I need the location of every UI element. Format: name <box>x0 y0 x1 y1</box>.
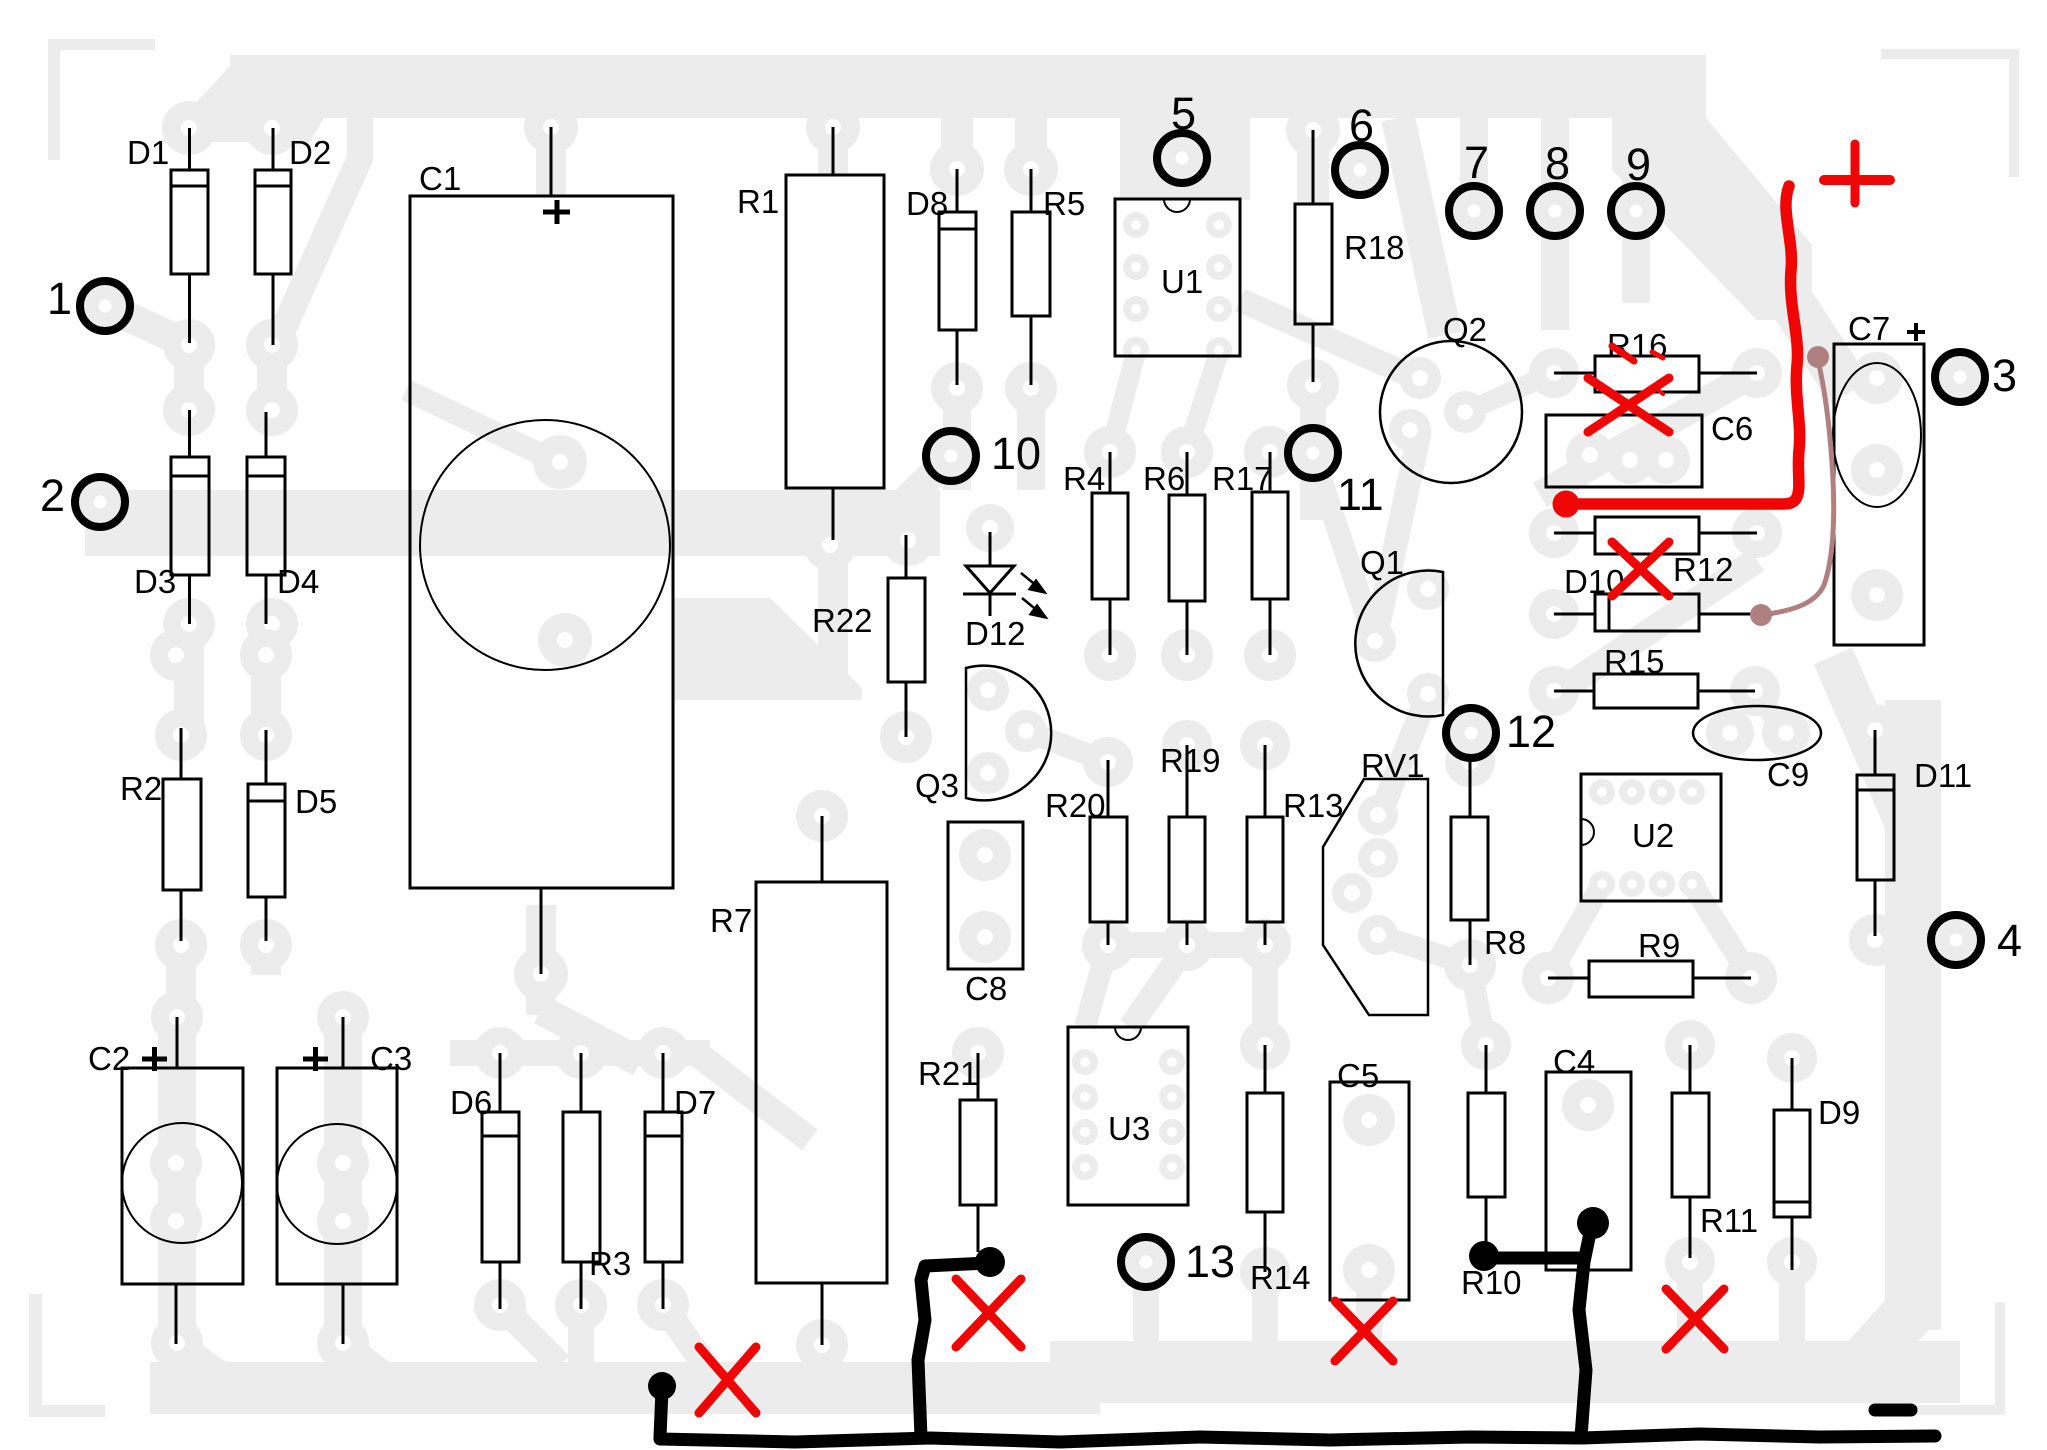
svg-text:7: 7 <box>1464 137 1489 188</box>
resistor R19 <box>1186 745 1189 817</box>
copper stub D8 <box>941 118 973 170</box>
trace D4 bottom <box>251 610 281 750</box>
capacitor C3 <box>342 1017 345 1068</box>
trace R15-C9 <box>1755 691 1786 733</box>
resistor R16 <box>1554 372 1595 375</box>
svg-text:D4: D4 <box>277 563 319 600</box>
trace row-R7 <box>700 1056 810 1140</box>
svg-text:R1: R1 <box>737 183 779 220</box>
trace Q1-RV1 <box>1380 694 1428 815</box>
corner mark bottom-right <box>1995 1302 2005 1415</box>
red tick on R16 <box>1612 346 1663 394</box>
red wire junction dot <box>1553 491 1580 518</box>
pad 3 <box>1931 348 1989 406</box>
trace R2 bottom <box>166 925 196 1035</box>
svg-text:D1: D1 <box>127 134 169 171</box>
red X below R11 <box>1666 1289 1724 1349</box>
pad 6 <box>1331 141 1389 199</box>
trace C1 bottom <box>526 905 556 1015</box>
right copper band <box>1885 700 1941 1330</box>
op-amp U3 <box>1068 1027 1188 1205</box>
trace D2-D4 <box>257 330 287 422</box>
black wire stub at dot <box>660 1390 662 1437</box>
svg-text:R18: R18 <box>1344 229 1405 266</box>
diode D7 <box>662 1053 665 1112</box>
resistor R7 <box>821 816 824 882</box>
trace R14 stub <box>1252 1272 1278 1347</box>
trace D5 bottom <box>251 925 281 975</box>
svg-text:D11: D11 <box>1914 757 1972 794</box>
trace pad12-R8 <box>1470 733 1471 762</box>
resistor R1 <box>832 127 835 175</box>
red X bottom-left <box>699 1347 756 1413</box>
black wire C4 down <box>1579 1228 1591 1437</box>
svg-text:U2: U2 <box>1632 817 1674 854</box>
trace Q3-R20 <box>1026 731 1108 762</box>
pad 10 <box>922 427 980 485</box>
svg-text:C7: C7 <box>1848 310 1890 347</box>
diode D5 <box>265 730 268 784</box>
resistor R4 <box>1109 452 1112 493</box>
black dot R21 <box>975 1247 1005 1277</box>
svg-text:C3: C3 <box>370 1040 412 1077</box>
trace U2-R9 left <box>1548 884 1602 978</box>
svg-text:C1: C1 <box>419 160 461 197</box>
svg-text:R14: R14 <box>1250 1259 1311 1296</box>
svg-text:R3: R3 <box>589 1245 631 1282</box>
trace Q2-R16 <box>1465 373 1554 412</box>
corner mark top-right <box>1881 49 2019 59</box>
svg-text:6: 6 <box>1349 100 1374 151</box>
copper stub R1 lead <box>818 80 848 175</box>
pad 11 <box>1284 424 1342 482</box>
diode D10 <box>1554 613 1595 616</box>
capacitor C9 <box>1693 706 1821 760</box>
diode D3 <box>188 410 191 457</box>
trace R7 bottom stub <box>809 1345 835 1370</box>
svg-text:D5: D5 <box>295 783 337 820</box>
trace D8 bottom stub <box>943 388 971 490</box>
resistor R12 <box>1554 532 1595 535</box>
pad 5 <box>1153 129 1211 187</box>
resistor R9 <box>1548 977 1589 980</box>
svg-text:3: 3 <box>1992 350 2017 401</box>
led D12 arrowheads <box>1030 581 1044 592</box>
pad 13 <box>1117 1233 1175 1291</box>
svg-text:R10: R10 <box>1461 1264 1522 1301</box>
resistor R3 <box>580 1053 583 1112</box>
svg-text:Q3: Q3 <box>915 767 959 804</box>
right copper band chamfer <box>1830 1300 1941 1377</box>
diode D8 <box>956 169 959 212</box>
copper stub R1 bottom <box>818 556 848 696</box>
resistor R6 <box>1186 452 1189 495</box>
transistor Q1 <box>1355 571 1443 717</box>
svg-text:R4: R4 <box>1063 460 1105 497</box>
led D12 <box>989 532 992 566</box>
trace behind C6 <box>1540 370 1760 495</box>
svg-text:R21: R21 <box>918 1055 979 1092</box>
resistor R18 <box>1312 130 1315 204</box>
svg-text:D8: D8 <box>906 185 948 222</box>
op-amp U1 <box>1115 199 1240 356</box>
svg-text:R20: R20 <box>1045 787 1106 824</box>
svg-text:8: 8 <box>1545 138 1570 189</box>
trace D1-D3 <box>174 330 204 422</box>
capacitor C5 <box>1330 1082 1409 1300</box>
pad 2 <box>71 473 129 531</box>
black ground wire bottom <box>660 1434 1935 1442</box>
bottom copper band right <box>1050 1341 1960 1403</box>
trace pad1-D1 <box>105 306 189 345</box>
trace D7 bottom <box>663 1305 705 1365</box>
svg-text:R7: R7 <box>710 902 752 939</box>
svg-text:D9: D9 <box>1818 1094 1860 1131</box>
svg-text:R12: R12 <box>1673 551 1734 588</box>
pad 8 <box>1526 182 1584 240</box>
copper stub pad9 <box>1622 118 1650 303</box>
trace R4 top diag <box>1110 352 1136 452</box>
svg-text:13: 13 <box>1185 1236 1235 1287</box>
black wire from R21 <box>918 1263 988 1437</box>
svg-text:C8: C8 <box>965 970 1007 1007</box>
trace behind R15 <box>1546 560 1757 700</box>
resistor R15 <box>1554 690 1594 693</box>
svg-text:C4: C4 <box>1553 1043 1595 1080</box>
brown wire <box>1762 360 1834 615</box>
svg-text:5: 5 <box>1171 88 1196 139</box>
trace pad11-Q1 <box>1313 455 1375 641</box>
trace R19-U3 <box>1130 945 1187 1027</box>
copper stub C1 lead <box>536 80 566 196</box>
pad 1 <box>76 277 134 335</box>
trace behind Q2 <box>1375 430 1420 641</box>
red X over R16 <box>1588 378 1669 432</box>
svg-text:D7: D7 <box>674 1084 716 1121</box>
svg-text:11: 11 <box>1337 469 1384 520</box>
corner mark bottom-left <box>29 1294 42 1417</box>
diode D11 <box>1874 730 1877 775</box>
copper blob C1 right <box>674 598 862 700</box>
svg-text:9: 9 <box>1626 139 1651 190</box>
svg-text:R19: R19 <box>1160 742 1221 779</box>
svg-text:1: 1 <box>47 273 72 324</box>
resistor R14 <box>1264 1045 1267 1093</box>
trace R8-R10 <box>1470 965 1486 1045</box>
black dot R10 <box>1469 1241 1499 1271</box>
trace C3 to band <box>343 1345 400 1390</box>
svg-text:C6: C6 <box>1711 410 1753 447</box>
trimmer RV1 <box>1323 779 1428 1015</box>
trace RV1-R8 <box>1378 935 1470 965</box>
trace R13-R14 <box>1252 945 1278 1045</box>
capacitor C8 <box>948 822 1023 969</box>
trace D6 bottom <box>500 1305 560 1365</box>
trace R11 stub <box>1677 1262 1703 1347</box>
trace R5 bottom stub <box>1017 388 1045 490</box>
svg-text:U1: U1 <box>1161 263 1203 300</box>
trace U1-Q2 <box>1240 300 1420 380</box>
trace TR to C7 <box>1790 300 1850 392</box>
trace R20-U3 <box>1085 945 1108 1027</box>
transistor Q3 <box>966 666 1051 801</box>
svg-text:RV1: RV1 <box>1361 747 1425 784</box>
svg-text:R15: R15 <box>1604 643 1665 680</box>
diode D1 <box>188 128 191 170</box>
trace U2-R9 right <box>1692 884 1751 978</box>
svg-text:U3: U3 <box>1108 1110 1150 1147</box>
transistor Q2 <box>1380 341 1522 483</box>
capacitor C7 <box>1834 344 1924 645</box>
red X below R21 <box>956 1279 1021 1347</box>
svg-text:R6: R6 <box>1143 460 1185 497</box>
diode D9 <box>1791 1058 1794 1110</box>
black dot C4 <box>1577 1207 1609 1239</box>
black wire from R10 to C4 <box>1487 1252 1581 1265</box>
svg-text:R13: R13 <box>1283 787 1344 824</box>
trace R19 row <box>1108 932 1268 958</box>
capacitor C6 <box>1546 415 1702 487</box>
resistor R10 <box>1485 1045 1488 1093</box>
pad 7 <box>1445 182 1503 240</box>
copper trace inside C1 <box>406 390 557 462</box>
trace D6 row <box>450 1040 710 1066</box>
resistor R8 <box>1469 762 1472 817</box>
svg-text:R22: R22 <box>812 602 873 639</box>
svg-text:4: 4 <box>1997 915 2022 966</box>
diode D6 <box>499 1053 502 1112</box>
resistor R21 <box>977 1053 980 1100</box>
svg-text:Q2: Q2 <box>1443 311 1487 348</box>
copper blob top-left leg <box>160 55 360 142</box>
svg-text:R17: R17 <box>1212 460 1273 497</box>
svg-text:R11: R11 <box>1700 1202 1758 1239</box>
capacitor C4 <box>1546 1072 1631 1270</box>
copper blob top-right diagonal <box>1612 118 1812 320</box>
red plus symbol <box>1824 144 1890 203</box>
svg-text:D2: D2 <box>289 134 331 171</box>
bottom copper band left <box>150 1362 1100 1414</box>
trace C5 stub <box>1356 1270 1382 1345</box>
svg-text:Q1: Q1 <box>1360 544 1404 581</box>
trace pad13 stub <box>1133 1262 1159 1347</box>
diode D4 <box>265 412 268 457</box>
op-amp U2 <box>1581 774 1721 901</box>
svg-text:12: 12 <box>1506 706 1556 757</box>
brown dot top <box>1807 346 1829 368</box>
svg-text:R5: R5 <box>1043 185 1085 222</box>
brown dot bottom <box>1750 604 1772 626</box>
red X over R12 <box>1612 542 1669 596</box>
copper trace D2-vertical <box>282 118 360 332</box>
copper trace top band <box>230 55 1706 118</box>
svg-text:C2: C2 <box>88 1040 130 1077</box>
trace D9 stub <box>1779 1262 1805 1347</box>
trace D3 bottom <box>174 610 204 750</box>
copper pads (donuts) <box>150 100 1903 1371</box>
resistor R20 <box>1107 760 1110 817</box>
red wire + supply <box>1570 186 1800 504</box>
copper stub R18 <box>1297 118 1329 205</box>
diode D2 <box>272 128 275 170</box>
trace C1-D6 diag <box>541 1010 640 1062</box>
trace C2 spine <box>158 1030 196 1350</box>
svg-text:2: 2 <box>40 470 65 521</box>
pad 9 <box>1607 182 1665 240</box>
resistor R2 <box>180 728 183 779</box>
red X below C5 <box>1335 1301 1393 1361</box>
copper stub R5 <box>1015 118 1047 170</box>
resistor R17 <box>1269 452 1272 492</box>
svg-text:R9: R9 <box>1638 927 1680 964</box>
pad 4 <box>1927 911 1985 969</box>
corner mark top-left <box>48 39 155 50</box>
svg-text:C5: C5 <box>1337 1057 1379 1094</box>
trace C3 spine <box>324 1030 362 1350</box>
resistor R11 <box>1689 1045 1692 1093</box>
svg-text:C9: C9 <box>1767 756 1809 793</box>
capacitor C2 <box>176 1017 179 1068</box>
trace band to Q2 <box>1398 118 1445 335</box>
trace R6 top diag <box>1187 352 1219 452</box>
capacitor C1 <box>550 127 553 196</box>
svg-text:D12: D12 <box>965 615 1026 652</box>
copper stub pad8 <box>1541 118 1569 330</box>
minus symbol <box>1875 1404 1911 1417</box>
copper stub pad7 <box>1460 118 1488 238</box>
resistor R5 <box>1030 169 1033 212</box>
trace R3 bottom <box>568 1305 594 1365</box>
trace to pad10 <box>900 456 951 505</box>
svg-text:R8: R8 <box>1484 924 1526 961</box>
svg-text:D6: D6 <box>450 1084 492 1121</box>
pad 12 <box>1442 704 1500 762</box>
resistor R22 <box>905 535 908 578</box>
svg-text:10: 10 <box>991 428 1041 479</box>
mid band <box>85 490 940 556</box>
right band diagonal <box>1833 656 1912 838</box>
copper area U1 <box>1120 118 1250 200</box>
resistor R13 <box>1264 745 1267 817</box>
svg-text:D3: D3 <box>134 563 176 600</box>
trace pad11 stub <box>1300 390 1326 520</box>
black dot left <box>648 1372 676 1400</box>
trace C2 to band <box>176 1345 240 1390</box>
svg-text:R2: R2 <box>120 770 162 807</box>
